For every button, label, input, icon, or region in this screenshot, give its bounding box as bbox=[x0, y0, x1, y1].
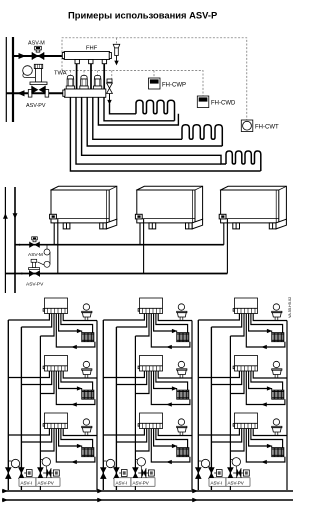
svg-text:FH-CWP: FH-CWP bbox=[162, 83, 186, 89]
radiator inlet arrow bbox=[77, 329, 81, 332]
riser return thin bbox=[5, 37, 7, 122]
labels bbox=[19, 478, 36, 486]
arrow right bbox=[19, 54, 25, 59]
svg-text:FH-CWD: FH-CWD bbox=[211, 101, 236, 107]
drops and fan-out bbox=[8, 314, 97, 348]
drop 2 bbox=[76, 97, 221, 164]
manifold box bbox=[43, 298, 67, 314]
air vent valve bbox=[113, 44, 120, 64]
FH-CWT thermostat bbox=[241, 120, 253, 132]
serpentine loop 3 bbox=[226, 151, 261, 171]
arrow left bbox=[19, 91, 25, 96]
supply pipe bbox=[15, 244, 224, 246]
drop 7 bbox=[104, 97, 175, 121]
svg-text:ASV-M: ASV-M bbox=[28, 252, 43, 258]
ASV-PV valve bbox=[38, 468, 44, 479]
FH-CWP thermostat bbox=[149, 78, 161, 89]
ASV-I valve bbox=[19, 468, 25, 479]
risers bbox=[4, 187, 6, 293]
FHF supply manifold bbox=[62, 52, 111, 64]
dashed control lines bbox=[62, 38, 247, 120]
capillary coil bbox=[44, 249, 50, 255]
svg-text:TWA: TWA bbox=[54, 71, 67, 77]
svg-text:VA.55.H5.02: VA.55.H5.02 bbox=[288, 297, 292, 318]
bypass loop 1 bbox=[11, 459, 19, 467]
riser supply thick bbox=[12, 37, 14, 122]
ASV-PV valve on return bbox=[29, 259, 40, 276]
valve on riser1 bbox=[6, 468, 12, 479]
svg-text:FHF: FHF bbox=[86, 46, 98, 52]
serpentine loop 1 bbox=[136, 100, 175, 121]
floor unit x3 bbox=[8, 298, 97, 349]
drop 4 bbox=[87, 97, 222, 146]
drop 5 bbox=[93, 97, 182, 139]
svg-text:ASV-PV: ASV-PV bbox=[38, 480, 54, 485]
valve drop serp1 supply bbox=[110, 104, 137, 114]
serpentine loop 2 bbox=[182, 125, 222, 146]
FH-CWD thermostat bbox=[197, 96, 209, 108]
supply pipe bbox=[13, 55, 64, 57]
TWA actuators x3 bbox=[66, 75, 102, 89]
drop 3 bbox=[82, 97, 226, 164]
floor loop pipes: supply/return drops bbox=[70, 97, 260, 171]
return pipe bbox=[6, 92, 65, 94]
thermostat valve bbox=[82, 304, 92, 321]
apartment group (x3) bbox=[3, 298, 98, 502]
return pipe bbox=[5, 273, 227, 275]
mains bbox=[2, 490, 293, 492]
svg-text:ASV-M: ASV-M bbox=[28, 41, 45, 47]
ASV-PV valve body bbox=[28, 64, 48, 97]
svg-text:ASV-I: ASV-I bbox=[21, 480, 33, 485]
svg-text:FH-CWT: FH-CWT bbox=[255, 125, 279, 131]
supply verticals between manifolds bbox=[77, 64, 105, 89]
drop 6 bbox=[98, 97, 178, 125]
bottom assembly bbox=[6, 458, 61, 487]
main arrows bbox=[3, 489, 8, 493]
manifold end valve bbox=[107, 79, 113, 104]
ASV-M valve on supply bbox=[30, 237, 40, 248]
bypass loop 2 bbox=[42, 458, 50, 466]
drop 1 outermost bbox=[70, 97, 260, 171]
return manifold with TWA bbox=[63, 89, 106, 97]
arrows on risers bbox=[3, 214, 7, 219]
unit drops bbox=[54, 219, 227, 274]
svg-text:ASV-PV: ASV-PV bbox=[26, 103, 46, 109]
ASV-M valve bbox=[32, 46, 44, 59]
radiator bbox=[82, 333, 94, 342]
svg-text:ASV-PV: ASV-PV bbox=[26, 282, 44, 288]
return arrow bbox=[72, 345, 77, 348]
ASV-PV membrane circle bbox=[23, 66, 33, 76]
risers bbox=[7, 320, 9, 490]
svg-text:Примеры использования ASV-P: Примеры использования ASV-P bbox=[68, 10, 217, 21]
fan coil units bbox=[50, 186, 117, 229]
